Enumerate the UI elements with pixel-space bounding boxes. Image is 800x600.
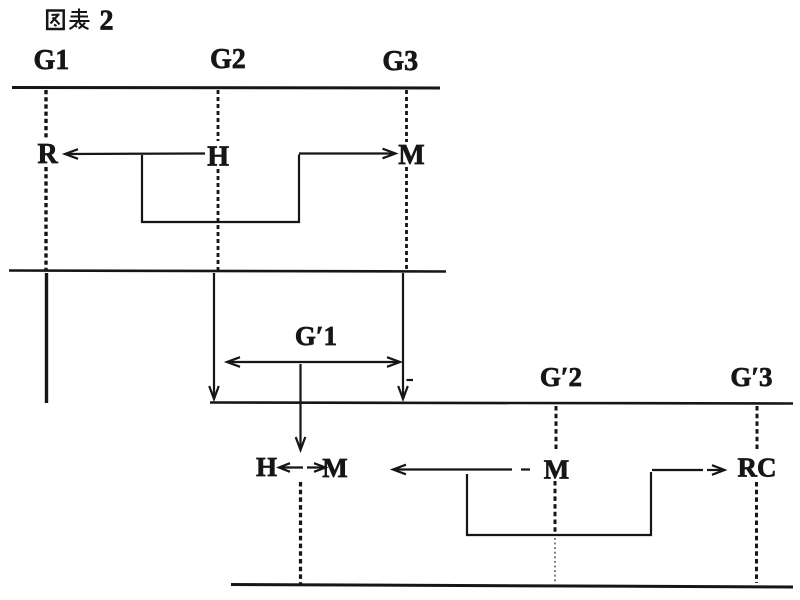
wire bracket under M right	[467, 472, 651, 535]
svg-text:G1: G1	[34, 45, 70, 76]
arrow G2 down to L3	[209, 273, 219, 399]
wire L4 bottom horizontal	[231, 585, 793, 588]
arrow to RC	[652, 465, 725, 475]
wire L3 third horizontal	[210, 403, 793, 404]
svg-text:G3: G3	[382, 46, 418, 77]
wire G2 dashed upper	[217, 90, 220, 141]
wire G1 solid below L2	[45, 273, 48, 403]
svg-text:G2: G2	[210, 44, 246, 75]
wire G1 dashed upper	[44, 90, 47, 140]
svg-text:M: M	[398, 140, 424, 171]
svg-text:G′1: G′1	[295, 321, 337, 351]
arrow M right to left	[393, 465, 530, 475]
wire dashed below H-M	[299, 482, 302, 584]
arrow H to R	[65, 149, 205, 159]
svg-text:2: 2	[100, 6, 114, 37]
wire G'2 dotted faint	[554, 538, 556, 582]
arrow to H bottom	[279, 463, 303, 472]
wire G2 dashed lower	[217, 169, 220, 270]
wire G1 dashed lower	[44, 167, 47, 270]
svg-text:M: M	[544, 455, 569, 485]
arrow to M bottom	[307, 463, 326, 472]
svg-text:G′3: G′3	[730, 362, 772, 392]
title 图 (drawn glyph)	[47, 11, 64, 30]
wire bracket under H	[142, 155, 299, 223]
wire G'2 dashed upper	[555, 406, 558, 452]
wire G'3 dashed lower	[755, 482, 758, 583]
wire G'3 dashed upper	[756, 406, 759, 451]
wire G3 dashed lower	[405, 167, 408, 270]
title 表 (drawn glyph)	[70, 9, 90, 30]
wire G3 dashed upper	[405, 90, 408, 142]
wire L1 top horizontal	[12, 86, 440, 90]
arrow H to M	[299, 149, 396, 159]
svg-text:RC: RC	[738, 453, 777, 483]
arrow center down to H-M	[296, 364, 306, 450]
arrow G'1 span double-headed	[227, 357, 400, 367]
svg-text:M: M	[322, 453, 347, 483]
svg-text:G′2: G′2	[540, 362, 582, 392]
svg-text:H: H	[207, 142, 229, 173]
arrow G3 down to L3	[398, 273, 413, 399]
svg-text:R: R	[38, 139, 59, 170]
wire G'2 dashed lower	[554, 481, 557, 533]
svg-text:H: H	[256, 452, 277, 482]
wire L2 second horizontal	[9, 271, 446, 272]
